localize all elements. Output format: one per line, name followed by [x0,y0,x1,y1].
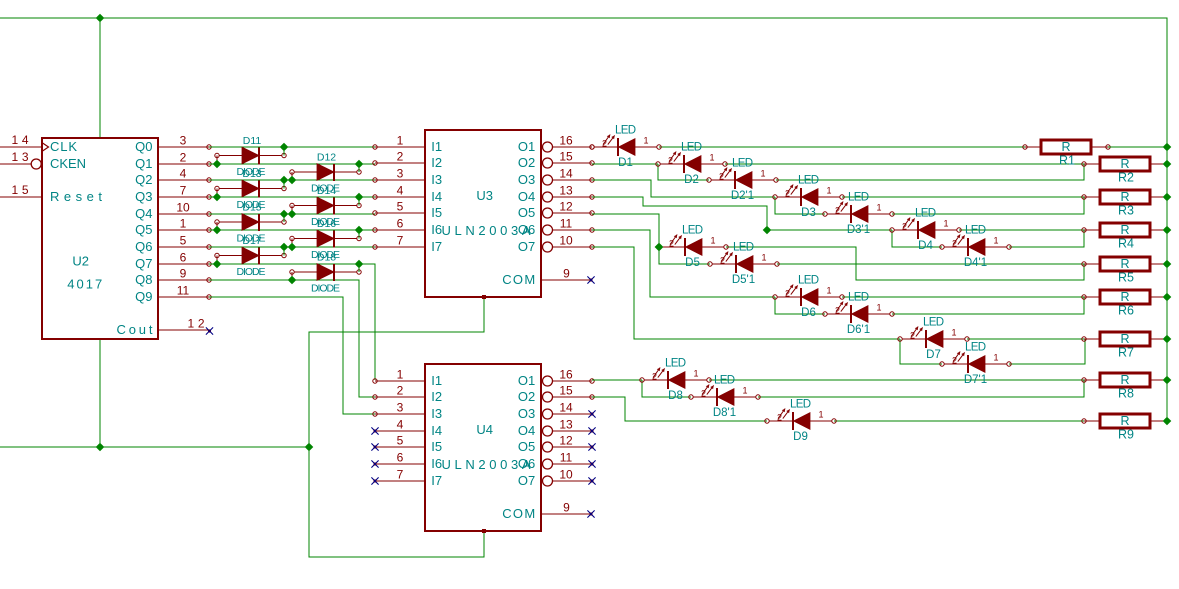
no-connect X on I5 [373,445,376,448]
wire Q5 row to U3 I6 [209,229,375,231]
svg-text:12: 12 [559,200,573,214]
IC U4 ULN2003A [371,364,595,533]
junction VCC rail [1163,226,1172,235]
svg-text:D5'1: D5'1 [732,274,755,286]
no-connect X on I4 [373,429,376,432]
junction [213,260,222,269]
svg-text:15: 15 [559,150,573,164]
svg-text:Q3: Q3 [135,189,152,204]
svg-text:1: 1 [710,236,715,246]
diode D16 [290,230,361,247]
svg-text:9: 9 [563,267,570,281]
junction VCC rail [1163,143,1172,152]
pin I6 (6) [375,463,425,465]
svg-text:I3: I3 [431,406,442,421]
pin Q7 (6) [158,263,209,265]
resistor R6 [1082,290,1167,318]
pin O2 (15) [543,158,553,168]
junction [355,260,364,269]
pin O5 (12) [543,442,553,452]
pin I3 (3) [375,413,425,415]
pin 8 GND pad [482,295,486,299]
junction [288,243,297,252]
pin O2 (15) [543,392,553,402]
svg-text:7: 7 [397,234,404,248]
junction [280,143,289,152]
svg-text:D4: D4 [918,240,933,252]
wire Q1 row to U3 I2 [209,163,375,165]
wire O2 net: D2 and D2p1 cathodes [592,163,658,165]
svg-text:O2: O2 [518,155,535,170]
svg-text:6: 6 [180,251,187,265]
wire diode D18 cathode to row 8 [358,264,360,272]
svg-text:3: 3 [180,134,187,148]
pin O5 (12) [543,208,553,218]
no-connect X on COM [589,512,592,515]
svg-text:R: R [1120,223,1129,237]
resistor R1 [1023,140,1110,168]
svg-text:I1: I1 [431,373,442,388]
svg-text:2: 2 [835,306,840,316]
svg-text:9: 9 [563,501,570,515]
wire Q3 row to U3 I4 [209,196,375,198]
svg-text:R: R [1120,414,1129,428]
svg-text:2: 2 [397,150,404,164]
pin I7 (7) [375,246,425,248]
svg-text:7: 7 [397,468,404,482]
svg-text:Q5: Q5 [135,222,152,237]
svg-text:Q0: Q0 [135,139,152,154]
svg-text:R4: R4 [1118,237,1134,251]
pin I4 (4) [375,430,425,432]
svg-text:1: 1 [818,410,823,420]
diode D17 [215,247,286,264]
svg-text:U3: U3 [476,188,493,203]
wire D5 anode detour to R5 [726,247,1084,280]
pin O6 (11) [543,459,553,469]
svg-text:LED: LED [923,317,944,329]
resistor R9 [1082,414,1167,442]
svg-text:11: 11 [560,217,573,231]
svg-text:5: 5 [180,234,187,248]
wire Q8 row to U4 I2 [209,280,375,397]
svg-text:O3: O3 [518,406,535,421]
svg-text:Q1: Q1 [135,156,152,171]
svg-text:D12: D12 [317,152,336,164]
pin COM (9) [541,513,592,515]
svg-text:2: 2 [902,222,907,232]
svg-text:LED: LED [848,192,869,204]
wire D3 pair vertical [775,197,825,214]
svg-text:2: 2 [180,151,187,165]
svg-text:Q6: Q6 [135,239,152,254]
wire diode D13 cathode to row 3 [283,180,285,189]
wire Q6 row to U3 I7 [209,246,375,248]
no-connect X on I6 [373,462,376,465]
diode D18 [290,264,361,281]
pin Q1 (2) [158,163,209,165]
LED D7 [898,317,969,362]
svg-text:D8: D8 [668,390,683,402]
no-connect X on O5 [590,445,593,448]
junction VCC rail at x=100 [96,14,105,23]
svg-text:3: 3 [397,401,404,415]
pin I5 (5) [375,212,425,214]
wire Q2 row to U3 I3 [209,179,375,181]
svg-text:D2: D2 [684,174,699,186]
svg-text:Q7: Q7 [135,256,152,271]
svg-text:COM: COM [502,506,535,521]
no-connect X on COM [589,278,592,281]
svg-text:R: R [1120,257,1129,271]
wire D4p1 anode riser to R4 [1009,230,1084,247]
wire Q9 row to U4 I3 [209,297,375,414]
svg-text:Q8: Q8 [135,272,152,287]
LED D7'1 [940,342,1011,387]
svg-text:LED: LED [665,358,686,370]
svg-text:1: 1 [180,217,187,231]
wire D5p1 anode to R5 [777,263,1084,265]
wire D7p1 anode riser to R7 [1009,339,1085,364]
svg-text:14: 14 [559,167,573,181]
svg-text:D15: D15 [242,202,261,214]
LED D1 [590,125,661,170]
wire D8p1 anode riser to R8 [758,380,1084,397]
junction VCC rail [1163,293,1172,302]
svg-text:O5: O5 [518,439,535,454]
wire D8 pair vertical [642,380,691,397]
svg-text:I7: I7 [431,473,442,488]
LED D6'1 [823,292,894,337]
wire diode D18 anode to row 9 [291,272,293,280]
svg-text:O7: O7 [518,239,535,254]
wire diode D12 anode to row 3 [291,172,293,180]
junction [355,160,364,169]
diode D12 [290,164,361,181]
svg-text:2: 2 [397,384,404,398]
svg-text:12: 12 [559,434,573,448]
wire diode D11 cathode to row 1 [283,147,285,156]
wire VCC top rail and right rail [0,18,1167,421]
svg-text:D17: D17 [242,235,261,247]
svg-text:2: 2 [652,372,657,382]
pin O1 (16) [543,142,553,152]
svg-text:LED: LED [732,158,753,170]
svg-text:1: 1 [643,136,648,146]
LED D3'1 [823,192,894,237]
pin O7 (10) [543,476,553,486]
svg-text:1: 1 [826,286,831,296]
pin I1 (1) [375,146,425,148]
svg-text:COM: COM [502,272,535,287]
pin O1 (16) [543,376,553,386]
svg-text:I4: I4 [431,423,442,438]
svg-text:D8'1: D8'1 [713,407,736,419]
junction VCC rail [1163,193,1172,202]
pin Cout 12 [158,329,209,331]
svg-text:2: 2 [720,256,725,266]
svg-text:Q9: Q9 [135,289,152,304]
junction VCC rail [1163,376,1172,385]
junction [288,276,297,285]
wire diode D14 anode to row 5 [291,206,293,215]
wire D6 pair vertical [775,297,825,314]
pin I6 (6) [375,229,425,231]
svg-text:D6'1: D6'1 [847,324,870,336]
junction [213,193,222,202]
svg-text:DIODE: DIODE [311,283,340,295]
svg-text:LED: LED [714,375,735,387]
wire GND rail bottom left [0,446,309,448]
pin COM (9) [541,279,592,281]
diode D15 [215,214,286,231]
svg-text:6: 6 [397,217,404,231]
wire diode D11 anode to row 2 [216,156,218,165]
svg-text:R: R [1120,373,1129,387]
pin I7 (7) [375,480,425,482]
svg-text:U2: U2 [72,254,89,269]
pin Q6 (5) [158,246,209,248]
svg-text:I3: I3 [431,172,442,187]
junction VCC rail [1163,417,1172,426]
svg-text:R: R [1061,140,1070,154]
no-connect X on O7 [590,479,593,482]
svg-text:4: 4 [180,167,187,181]
svg-text:R: R [1120,157,1129,171]
pin CLK 14 [0,146,42,148]
no-connect X on O6 [590,462,593,465]
LED D5'1 [708,242,779,287]
svg-text:I7: I7 [431,239,442,254]
svg-text:D11: D11 [243,135,262,147]
svg-text:I5: I5 [431,205,442,220]
svg-text:DIODE: DIODE [237,266,266,278]
junction [280,243,289,252]
LED D4'1 [940,225,1011,270]
svg-text:R: R [1120,290,1129,304]
pin O6 (11) [543,225,553,235]
svg-text:LED: LED [682,225,703,237]
junction [280,210,289,219]
svg-text:R8: R8 [1118,387,1134,401]
wire O7 net to D7 [592,247,900,339]
pin O4 (13) [543,426,553,436]
junction GND at x=309 [305,443,314,452]
no-connect X on O3 [590,412,593,415]
svg-text:10: 10 [559,468,573,482]
svg-text:CLK: CLK [50,139,77,154]
svg-text:2: 2 [952,356,957,366]
svg-text:11: 11 [177,284,190,298]
svg-text:LED: LED [848,292,869,304]
svg-text:D1: D1 [618,157,633,169]
svg-text:D7'1: D7'1 [964,374,987,386]
pin Q0 (3) [158,146,209,148]
wire diode D15 anode to row 6 [216,222,218,230]
pin Q5 (1) [158,229,209,231]
no-connect X on I7 [373,479,376,482]
wire D2p1 anode riser to R2 [776,164,1084,180]
pin 8 GND pad [482,529,486,533]
svg-text:D7: D7 [926,349,941,361]
svg-text:1: 1 [761,253,766,263]
junction D5 cathode over pin [655,243,664,252]
wire U4 O1 to D8 [592,379,642,381]
diode D14 [290,197,361,214]
svg-text:LED: LED [798,275,819,287]
LED D2'1 [707,158,778,203]
LED D8'1 [689,375,760,420]
svg-text:D4'1: D4'1 [964,257,987,269]
wire Q7 row to U4 I1 [209,264,375,380]
wire U3 pin8 GND path [309,297,484,447]
LED D4 [890,208,961,253]
wire D3 anode to R3 [842,196,1084,198]
junction [288,210,297,219]
junction [280,176,289,185]
svg-text:R6: R6 [1118,304,1134,318]
svg-text:O4: O4 [518,189,535,204]
svg-text:5: 5 [397,434,404,448]
junction D5 cathode [655,243,664,252]
junction [213,160,222,169]
svg-text:R: R [1120,190,1129,204]
svg-text:I5: I5 [431,439,442,454]
wire diode D16 cathode to row 6 [358,230,360,239]
wire D3p1 anode riser to R3 [892,197,1084,214]
wire D6 anode to R6 [842,296,1084,298]
svg-text:O1: O1 [518,373,535,388]
wire D2 anode to R2 [725,163,1084,165]
svg-text:I4: I4 [431,189,442,204]
svg-text:5: 5 [397,200,404,214]
LED D9 [765,399,836,444]
svg-text:2: 2 [952,239,957,249]
svg-text:R1: R1 [1059,154,1075,168]
wire Q4 row to U3 I5 [209,213,375,215]
svg-text:1: 1 [742,386,747,396]
wire diode D16 anode to row 7 [291,239,293,248]
svg-text:14: 14 [559,401,573,415]
svg-text:O7: O7 [518,473,535,488]
svg-text:1: 1 [693,369,698,379]
wire D7 pair vertical [900,339,942,364]
wire R1 to VCC rail [1108,146,1167,148]
svg-text:LED: LED [915,208,936,220]
pin O3 (14) [543,409,553,419]
svg-text:R2: R2 [1118,171,1134,185]
junction VCC rail [1163,335,1172,344]
svg-text:D16: D16 [317,218,336,230]
svg-text:2: 2 [719,172,724,182]
junction O4 elbow [763,226,772,235]
LED D3 [773,175,844,220]
svg-text:16: 16 [559,368,573,382]
svg-text:R3: R3 [1118,204,1134,218]
wire diode D17 anode to row 8 [216,256,218,265]
pin I1 (1) [375,380,425,382]
svg-text:2: 2 [668,156,673,166]
svg-text:1: 1 [709,153,714,163]
svg-text:15: 15 [559,384,573,398]
resistor R4 [1082,223,1167,251]
LED D2 [656,142,727,187]
svg-text:1: 1 [993,353,998,363]
svg-text:LED: LED [790,399,811,411]
svg-text:D5: D5 [685,257,700,269]
LED D8 [640,358,711,403]
wire diode D17 cathode to row 7 [283,247,285,256]
svg-text:I2: I2 [431,155,442,170]
svg-text:R: R [1120,332,1129,346]
svg-text:O3: O3 [518,172,535,187]
svg-text:2: 2 [785,189,790,199]
wire diode D12 cathode to row 2 [358,164,360,172]
resistor R5 [1082,257,1167,285]
svg-text:I2: I2 [431,389,442,404]
wire diode D14 cathode to row 4 [358,197,360,206]
wire VCC to U2 pin16 top [99,18,101,138]
svg-text:1: 1 [993,236,998,246]
wire U4 O2 to D9 [592,397,767,421]
IC U3 ULN2003A [373,130,595,299]
svg-text:LED: LED [798,175,819,187]
junction VCC rail [1163,260,1172,269]
svg-text:R5: R5 [1118,271,1134,285]
resistor R8 [1082,373,1167,401]
no-connect X on O4 [590,429,593,432]
svg-text:1: 1 [760,169,765,179]
wire D8 anode to R8 [709,379,1084,381]
svg-text:D9: D9 [793,431,808,443]
svg-text:13: 13 [559,184,573,198]
svg-text:D18: D18 [317,252,336,264]
wire diode D13 anode to row 4 [216,189,218,198]
no-connect X on Cout [208,329,211,332]
svg-text:O1: O1 [518,139,535,154]
wire D4 anode to R4 [959,229,1084,231]
wire O4 net detour to D4 [592,197,892,230]
svg-text:9: 9 [180,267,187,281]
svg-text:D6: D6 [801,307,816,319]
pin Q3 (7) [158,196,209,198]
wire U4 pin8 GND path [309,447,484,557]
svg-text:D2'1: D2'1 [731,190,754,202]
svg-text:1: 1 [876,303,881,313]
resistor R7 [1082,332,1167,360]
pin Q2 (4) [158,179,209,181]
pin I4 (4) [375,196,425,198]
diode D11 [215,147,286,164]
wire diode D15 cathode to row 5 [283,214,285,222]
svg-text:1: 1 [876,203,881,213]
svg-text:O5: O5 [518,205,535,220]
wire D1 anode to R1 [659,146,1025,148]
svg-text:1: 1 [943,219,948,229]
svg-text:O2: O2 [518,389,535,404]
wire O3 net to D3 [592,180,775,197]
junction [355,193,364,202]
LED D5 [657,225,728,270]
wire D7 anode to R7 [967,338,1084,340]
resistor R3 [1082,190,1167,218]
wire Q0 row to U3 I1 [209,146,375,148]
svg-text:D3'1: D3'1 [847,224,870,236]
svg-text:1: 1 [826,186,831,196]
svg-text:R9: R9 [1118,428,1134,442]
svg-text:2: 2 [701,389,706,399]
pin I2 (2) [375,396,425,398]
